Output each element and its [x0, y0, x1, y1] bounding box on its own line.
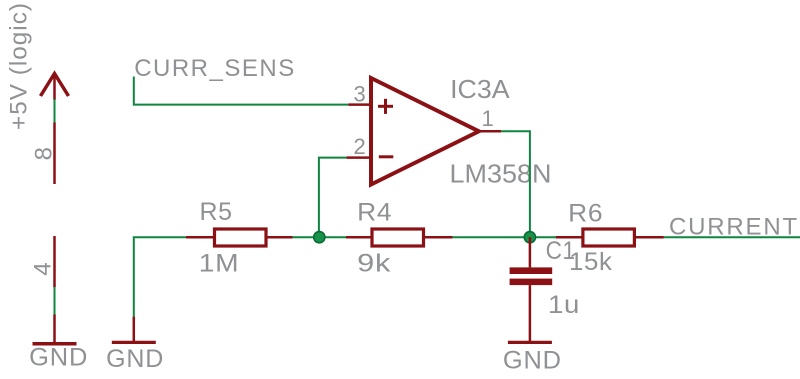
pin 8 of IC3 power: [53, 123, 56, 185]
ground symbol mid: [112, 341, 156, 344]
wire to CURRENT: [664, 236, 800, 238]
svg-text:8: 8: [31, 147, 58, 160]
svg-text:1: 1: [482, 106, 494, 131]
ground pin mid: [133, 317, 136, 341]
svg-text:LM358N: LM358N: [450, 159, 552, 189]
svg-text:GND: GND: [29, 344, 88, 372]
svg-text:GND: GND: [503, 347, 562, 375]
supply +5V arrow symbol: [41, 74, 69, 101]
resistor R5: [215, 229, 267, 246]
resistor R4 pins: [346, 236, 372, 239]
svg-text:C1: C1: [546, 237, 576, 265]
junction node B: [524, 232, 535, 243]
svg-text:1M: 1M: [199, 250, 240, 278]
wire R5 to node: [293, 236, 347, 238]
resistor R4: [372, 229, 424, 246]
capacitor C1 bottom pin: [529, 285, 532, 341]
svg-text:CURRENT: CURRENT: [669, 214, 799, 241]
svg-text:4: 4: [30, 262, 57, 275]
svg-text:3: 3: [354, 81, 366, 106]
capacitor C1 top pin: [529, 237, 532, 267]
resistor R6 pins: [556, 236, 582, 239]
svg-text:+5V (logic): +5V (logic): [6, 2, 33, 130]
wire R4 to node B: [453, 236, 556, 238]
ground pin: [53, 315, 56, 343]
svg-text:R4: R4: [357, 199, 392, 227]
svg-text:GND: GND: [106, 345, 164, 373]
wire rail left with GND branch: [134, 237, 186, 316]
wire CURR_SENS to pin 3: [134, 77, 349, 105]
wire pin2 feedback: [319, 158, 347, 238]
plus input mark: [378, 99, 393, 114]
svg-text:R6: R6: [568, 200, 603, 228]
wire output down to node: [501, 131, 530, 237]
pin 3 stub: [348, 103, 371, 106]
svg-text:9k: 9k: [357, 250, 391, 278]
pin 1 output stub: [479, 130, 501, 133]
wire: [54, 99, 56, 123]
wire: [54, 287, 56, 315]
pin 2 stub: [346, 156, 371, 159]
capacitor C1 plates: [510, 267, 553, 285]
pin 4 of IC3 power: [53, 236, 56, 287]
svg-text:CURR_SENS: CURR_SENS: [134, 55, 296, 82]
op-amp IC3A triangle: [371, 78, 479, 185]
resistor R6: [583, 229, 635, 246]
svg-text:2: 2: [354, 134, 366, 159]
resistor R5 pins: [186, 236, 214, 239]
junction node A: [314, 232, 325, 243]
svg-text:IC3A: IC3A: [450, 74, 510, 104]
ground symbol left: [33, 342, 77, 346]
svg-text:1u: 1u: [548, 291, 580, 319]
ground symbol right: [508, 341, 552, 344]
minus input mark: [379, 155, 394, 158]
svg-text:R5: R5: [200, 198, 233, 226]
